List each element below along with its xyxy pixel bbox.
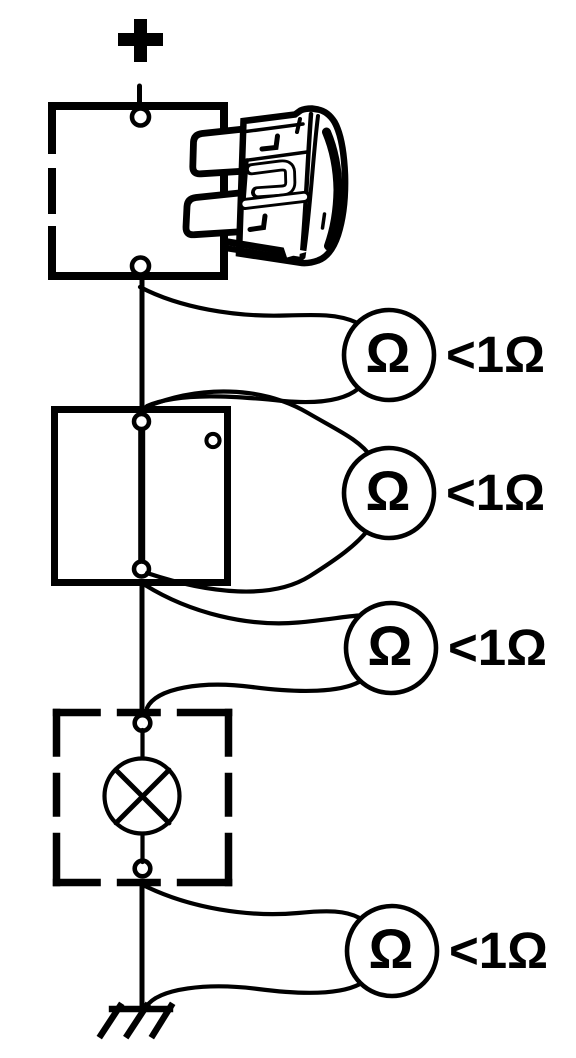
fuse bottom cap band lower [228, 249, 298, 260]
lead switch-bottom to ohmmeter3 [145, 585, 359, 623]
wire switch box to lamp box [140, 583, 145, 712]
ohmmeter 4 circle [347, 906, 437, 996]
fuse element S-band inner white [252, 165, 290, 192]
lead fuse-bottom to ohmmeter1 [140, 287, 357, 323]
lead lamp-bottom to ohmmeter4 [145, 886, 360, 918]
fuse hump seam [297, 119, 300, 132]
switch inner contact line [138, 421, 145, 569]
blade fuse illustration [186, 109, 345, 264]
svg-text:<1Ω: <1Ω [446, 326, 545, 383]
ground bar [112, 1006, 170, 1012]
fuse bottom cap band upper [225, 242, 292, 253]
lamp box (dashed) [53, 709, 233, 887]
switch aux contact circle [206, 434, 219, 447]
fuse box bottom terminal [132, 258, 149, 275]
fuse window top line [241, 152, 307, 161]
fuse rating mark lower [250, 216, 265, 230]
ohmmeter 1 circle [344, 310, 434, 400]
svg-text:Ω: Ω [369, 917, 414, 980]
lamp circle [105, 759, 180, 834]
fuse body outline [239, 109, 345, 264]
lamp bottom stub wire [140, 834, 144, 862]
lamp cross line 2 [116, 770, 169, 823]
ground stroke 2 [128, 1006, 147, 1035]
fuse element S-band outer [251, 165, 290, 192]
svg-text:<1Ω: <1Ω [449, 922, 548, 979]
lamp top terminal [135, 715, 151, 731]
lead ohmmeter4 to ground [146, 984, 360, 1007]
fuse lower blade [186, 193, 244, 235]
ground stroke 3 [153, 1006, 171, 1035]
fuse top cap line [242, 124, 303, 132]
svg-text:Ω: Ω [366, 459, 411, 522]
wire fuse box to switch box [140, 276, 145, 409]
wire lamp box to ground [140, 883, 145, 1009]
lead switch-top to ohmmeter2 [146, 392, 372, 458]
fuse box (dashed component box) [52, 106, 224, 276]
fuse element lower bar outer [245, 197, 306, 204]
lead ohmmeter3 to lamp-top [147, 682, 359, 708]
lamp bottom terminal [135, 861, 151, 877]
fuse element lower bar inner white [246, 197, 305, 204]
switch box [55, 410, 228, 583]
fuse box top terminal [132, 109, 149, 126]
switch top terminal [134, 414, 149, 429]
fuse side small tick [323, 214, 325, 228]
fuse side division line b [304, 116, 319, 257]
fuse rating mark upper [262, 136, 278, 149]
ground symbol [101, 1006, 171, 1035]
lamp top stub wire [140, 730, 144, 759]
svg-text:<1Ω: <1Ω [448, 619, 547, 676]
battery plus symbol [118, 19, 163, 62]
lamp cross line 1 [116, 770, 169, 823]
lead switch-bottom to ohmmeter2 [147, 528, 370, 592]
switch bottom terminal [134, 562, 149, 577]
ohmmeter 3 circle [346, 603, 436, 693]
fuse window left stem [244, 160, 247, 200]
fuse box dashed left edge [48, 102, 56, 280]
wire plus to fuse box [137, 86, 142, 108]
ground stroke 1 [101, 1006, 120, 1035]
svg-text:Ω: Ω [368, 614, 413, 677]
fuse upper blade [193, 129, 244, 174]
fuse bottom wedge notch [284, 247, 309, 258]
fuse side crescent band [327, 132, 339, 246]
lead ohmmeter1 to switch-top-corner [147, 389, 359, 407]
fuse side division line a [302, 114, 312, 259]
ohmmeter 2 circle [344, 448, 434, 538]
svg-text:Ω: Ω [366, 321, 411, 384]
svg-text:<1Ω: <1Ω [446, 464, 545, 521]
